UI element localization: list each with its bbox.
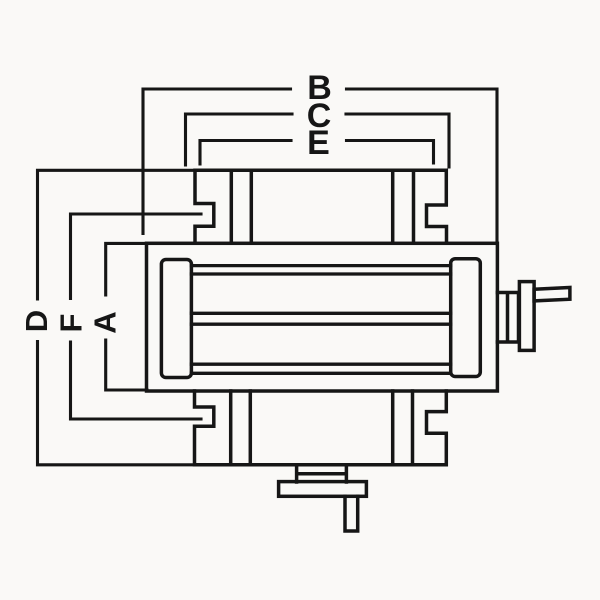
svg-text:F: F [54, 314, 89, 333]
svg-text:E: E [307, 124, 330, 162]
dimension bracket A [106, 243, 147, 390]
foot flange [279, 482, 367, 497]
bottom plate outline with T-slot notches [195, 391, 447, 465]
dimension bracket F [71, 214, 202, 419]
dimension bracket B [143, 89, 497, 242]
crank handle shaft [534, 288, 570, 301]
foot stem [345, 496, 358, 531]
dimension bracket E [200, 141, 434, 165]
svg-text:D: D [19, 310, 54, 332]
bottom plate inner verticals [231, 391, 413, 465]
guide rails and leadscrew lines [191, 266, 450, 374]
left bearing block [161, 260, 191, 378]
svg-text:A: A [88, 311, 123, 333]
dimension bracket D [38, 170, 196, 465]
dimension bracket C [186, 114, 450, 167]
top plate inner verticals [231, 170, 413, 243]
crank flange [519, 282, 534, 351]
foot neck under bottom plate [297, 465, 347, 482]
crank boss on right side [497, 293, 518, 343]
right bearing block [451, 259, 481, 377]
main body rectangle [147, 243, 498, 391]
top plate outline with T-slot notches [195, 170, 447, 243]
